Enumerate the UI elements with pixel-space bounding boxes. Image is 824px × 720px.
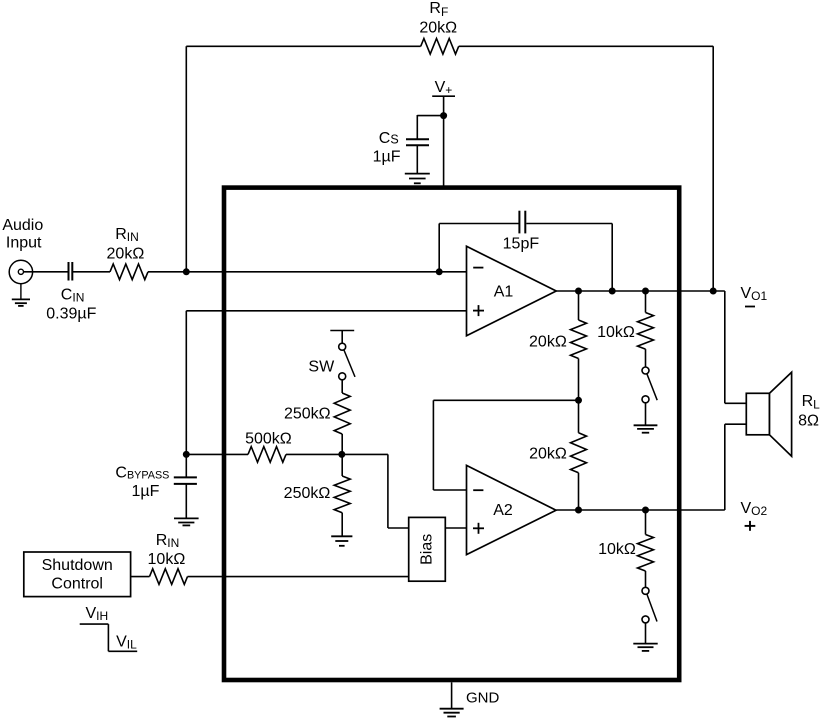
svg-text:10kΩ: 10kΩ (598, 541, 636, 558)
svg-text:VIH: VIH (86, 605, 109, 623)
svg-text:RIN: RIN (156, 532, 180, 550)
svg-text:A1: A1 (494, 283, 514, 300)
svg-text:V+: V+ (435, 79, 453, 97)
svg-text:GND: GND (466, 690, 500, 707)
svg-text:250kΩ: 250kΩ (284, 485, 331, 502)
svg-text:10kΩ: 10kΩ (148, 551, 186, 568)
svg-text:8Ω: 8Ω (798, 413, 819, 430)
svg-text:1µF: 1µF (132, 483, 160, 500)
svg-text:1µF: 1µF (373, 148, 401, 165)
svg-text:250kΩ: 250kΩ (284, 405, 331, 422)
svg-text:VIL: VIL (116, 634, 137, 652)
svg-text:Control: Control (51, 576, 103, 593)
svg-text:Shutdown: Shutdown (42, 557, 113, 574)
svg-text:SW: SW (308, 359, 335, 376)
svg-text:10kΩ: 10kΩ (597, 324, 635, 341)
svg-text:500kΩ: 500kΩ (245, 431, 292, 448)
svg-text:Bias: Bias (418, 534, 435, 565)
svg-text:20kΩ: 20kΩ (529, 445, 567, 462)
svg-text:20kΩ: 20kΩ (419, 19, 457, 36)
svg-text:20kΩ: 20kΩ (107, 245, 145, 262)
svg-text:20kΩ: 20kΩ (529, 333, 567, 350)
svg-text:CIN: CIN (61, 287, 85, 305)
svg-text:VO1: VO1 (741, 285, 768, 303)
svg-text:VO2: VO2 (741, 500, 768, 518)
svg-text:CBYPASS: CBYPASS (115, 465, 169, 482)
svg-text:0.39µF: 0.39µF (46, 305, 96, 322)
svg-text:RL: RL (802, 393, 821, 411)
svg-text:RIN: RIN (115, 226, 139, 244)
svg-text:RF: RF (429, 0, 448, 19)
svg-text:Input: Input (6, 235, 42, 252)
svg-text:A2: A2 (493, 502, 513, 519)
svg-text:CS: CS (379, 130, 399, 147)
svg-text:Audio: Audio (2, 217, 43, 234)
svg-text:15pF: 15pF (503, 236, 540, 253)
